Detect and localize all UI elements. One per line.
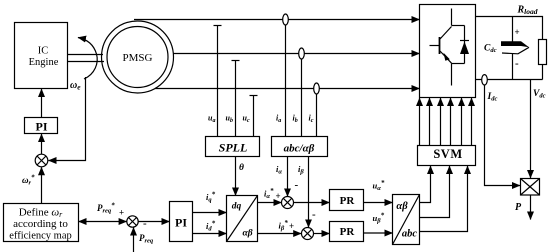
svg-text:ua: ua (208, 114, 215, 125)
Cdc top lead (512, 17, 514, 42)
id* wire (193, 233, 227, 235)
freewheel diode (460, 26, 469, 64)
IGBT emitter diagonal (440, 51, 452, 63)
svg-text:efficiency map: efficiency map (9, 231, 71, 242)
svg-text:αβ: αβ (396, 201, 408, 212)
svg-text:ic: ic (309, 114, 314, 125)
svg-text:Idc: Idc (487, 92, 498, 103)
voltage tap ub (232, 61, 240, 137)
svg-text:ib: ib (293, 114, 298, 125)
IGBT bottom rail (452, 63, 465, 65)
svg-text:Rload: Rload (517, 5, 538, 17)
svg-text:PMSG: PMSG (123, 52, 153, 64)
IGBT collector diagonal (440, 27, 452, 40)
svg-text:-: - (143, 218, 147, 230)
wire PI1 to engine (41, 89, 43, 118)
Rload bottom lead (542, 65, 544, 80)
svm input wire 1 (420, 166, 431, 203)
wire junction alpha to PR1 (294, 202, 330, 204)
current sensor ic (314, 83, 320, 137)
Vdc wire (530, 80, 532, 179)
svg-text:abc/αβ: abc/αβ (284, 143, 315, 155)
svg-text:PR: PR (340, 195, 356, 207)
DC+ rail (476, 17, 543, 40)
svg-text:id*: id* (206, 220, 216, 233)
svg-text:iq*: iq* (206, 191, 216, 204)
wire junction to PI (138, 221, 169, 223)
Cdc bottom lead (512, 54, 514, 80)
IGBT collector lead (451, 9, 453, 26)
speed sensor curved arrow (78, 38, 97, 80)
gate signal wires (420, 98, 472, 146)
svg-text:dq: dq (232, 202, 242, 212)
svg-text:-: - (312, 209, 316, 221)
svg-text:according to: according to (13, 218, 68, 230)
Preq* bidirectional wire (79, 221, 127, 223)
svm input wire 3 (420, 166, 468, 232)
PMSG generator (102, 21, 174, 93)
SPLL block (206, 137, 260, 157)
svg-text:iβ*: iβ* (279, 219, 289, 232)
svg-text:+: + (289, 221, 294, 231)
converter block (420, 5, 476, 98)
current sensor ia (283, 14, 289, 137)
svg-text:ωr*: ωr* (22, 174, 35, 187)
svg-text:Engine: Engine (29, 57, 59, 68)
phase wire b (174, 53, 420, 55)
theta wire (235, 157, 237, 196)
svg-text:uc: uc (243, 114, 250, 125)
power multiplier (521, 179, 540, 196)
Idc current sensor (482, 75, 488, 85)
svm input wire 2 (420, 166, 450, 218)
IGBT gate bar (439, 37, 441, 54)
junction speed (35, 154, 48, 167)
omega_r* wire (41, 167, 43, 203)
svg-text:SVM: SVM (433, 147, 462, 161)
Preq input wire (133, 228, 135, 252)
omega_e feedback wire (49, 77, 86, 161)
PI1 block (25, 118, 58, 134)
svg-text:θ: θ (239, 163, 244, 173)
iq* wire (193, 212, 227, 214)
DC- rail (476, 79, 543, 81)
svg-text:PR: PR (340, 226, 356, 238)
svg-text:+: + (276, 191, 281, 201)
junction beta (302, 228, 314, 240)
svg-text:ωe: ωe (70, 80, 81, 92)
svg-text:uα*: uα* (373, 179, 385, 192)
PI block (current reference) (170, 202, 193, 242)
svg-text:abc: abc (402, 229, 418, 240)
P output wire (530, 195, 532, 220)
svg-text:ia: ia (276, 114, 281, 125)
dq/alpha-beta block (227, 196, 258, 242)
alpha-beta/abc block (393, 195, 420, 245)
svg-text:iα: iα (276, 164, 282, 176)
svg-text:iα*: iα* (264, 187, 274, 200)
svg-text:SPLL: SPLL (219, 141, 248, 155)
IGBT gate lead (430, 45, 440, 47)
svg-text:+: + (515, 27, 520, 37)
svg-text:P: P (515, 202, 522, 213)
current sensor ib (299, 48, 305, 137)
svg-text:PI: PI (36, 120, 48, 134)
IGBT top rail (452, 25, 465, 27)
svg-text:PI: PI (175, 216, 187, 230)
svg-text:uβ*: uβ* (373, 212, 385, 225)
svg-text:ub: ub (226, 114, 233, 125)
u-beta* wire (364, 232, 393, 234)
IGBT emitter lead (451, 64, 453, 86)
i-beta wire (308, 157, 310, 228)
abc/alpha-beta block (272, 137, 328, 157)
svg-text:-: - (515, 58, 519, 70)
Idc wire (485, 85, 521, 186)
svg-text:-: - (295, 179, 299, 191)
i-alpha* wire (258, 202, 282, 204)
u-alpha* wire (364, 202, 393, 204)
svg-text:αβ: αβ (242, 229, 252, 239)
SVM block (418, 146, 476, 166)
svg-text:Preq*: Preq* (97, 202, 115, 215)
Define block (4, 204, 79, 242)
svg-text:IC: IC (38, 46, 49, 57)
voltage tap uc (250, 96, 258, 137)
IC Engine block (15, 23, 68, 89)
PR1 block (330, 190, 364, 211)
wire junction to PI1 (41, 134, 43, 154)
phase wire c (155, 88, 420, 90)
svg-text:Preq: Preq (139, 233, 154, 245)
phase wire a (134, 19, 420, 21)
Rload resistor (539, 40, 547, 65)
i-alpha wire (287, 157, 289, 197)
wire junction beta to PR2 (314, 233, 330, 235)
svg-text:+: + (119, 208, 124, 218)
PR2 block (330, 222, 364, 242)
svg-text:Cdc: Cdc (484, 44, 497, 55)
junction Preq (127, 216, 138, 227)
junction alpha (282, 197, 294, 209)
voltage tap ua (214, 26, 222, 137)
svg-text:Vdc: Vdc (533, 89, 546, 100)
svg-text:iβ: iβ (298, 164, 304, 176)
shaft coupling wires (68, 55, 105, 62)
i-beta* wire (258, 233, 302, 235)
Cdc capacitor (501, 41, 529, 54)
